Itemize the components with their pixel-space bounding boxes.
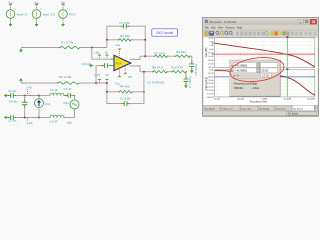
svg-text:L2 1T: L2 1T xyxy=(50,88,58,92)
capacitor C6 xyxy=(22,101,27,103)
wire R2 row right xyxy=(79,82,107,84)
close button xyxy=(310,19,317,24)
resistor R1 xyxy=(60,46,80,49)
toolbar icons xyxy=(205,32,209,35)
resistor R7 xyxy=(155,55,167,58)
toolbar xyxy=(204,30,318,38)
ground at C5 xyxy=(7,117,9,119)
ground at R2 input xyxy=(20,81,22,83)
svg-text:(-IN): (-IN) xyxy=(94,51,100,55)
tab bar xyxy=(204,105,318,111)
wire C9 to +IN pin xyxy=(109,65,114,67)
resistor R4 xyxy=(120,91,133,94)
gain plot vertical grid xyxy=(216,38,218,68)
resistor R8 xyxy=(153,70,167,73)
svg-text:-25.00: -25.00 xyxy=(208,64,215,66)
svg-text:R9 634: R9 634 xyxy=(176,50,186,54)
node (-IN) label stub xyxy=(98,54,101,56)
wire R10 to C7b xyxy=(185,72,187,77)
ground at C8 xyxy=(191,69,193,71)
wire between R8 and R10 xyxy=(167,71,173,73)
op-amp pin stubs xyxy=(111,58,115,60)
svg-text:Vpwr= 5: Vpwr= 5 xyxy=(17,12,28,16)
svg-text:Process: Process xyxy=(226,26,236,29)
cursor b blue line xyxy=(215,76,315,78)
resistor R3 xyxy=(119,39,131,42)
op-amp PD pin xyxy=(124,73,127,75)
svg-text:Edit: Edit xyxy=(211,26,216,29)
status bar xyxy=(204,111,318,116)
svg-text:10.00: 10.00 xyxy=(208,38,214,40)
phase plot horizontal grid xyxy=(215,72,315,74)
gain plot frame xyxy=(215,38,315,68)
wire R4 branch left xyxy=(107,91,120,93)
wire feedback bottom-right vertical xyxy=(129,72,144,104)
wire R9 to C8 xyxy=(190,56,192,62)
svg-text:Help: Help xyxy=(237,26,243,29)
capacitor C7 xyxy=(123,24,125,29)
node -IN label stub xyxy=(105,54,108,56)
wire output top xyxy=(130,56,156,59)
svg-text:R8 24.9: R8 24.9 xyxy=(152,66,163,70)
svg-text:C3 1T: C3 1T xyxy=(64,87,72,91)
gain curve xyxy=(215,43,315,67)
svg-text:Output nois: Output nois xyxy=(221,107,233,110)
svg-text:VG1: VG1 xyxy=(63,101,69,105)
wire Vin1 to L2 xyxy=(39,95,50,97)
svg-text:(+IN): (+IN) xyxy=(94,73,100,77)
svg-text:Frequency (Hz): Frequency (Hz) xyxy=(250,101,267,104)
svg-text:AC Bode1: AC Bode1 xyxy=(293,107,304,110)
svg-text:R3 402: R3 402 xyxy=(120,34,130,38)
svg-text:Frequency and Slope: Frequency and Slope xyxy=(234,83,258,86)
capacitor C2 xyxy=(123,101,125,106)
svg-text:C6 4p: C6 4p xyxy=(9,99,17,103)
svg-text:-75.00: -75.00 xyxy=(208,80,215,82)
svg-text:C4 4p: C4 4p xyxy=(8,89,16,93)
window icon xyxy=(205,20,208,23)
wire R4 branch right xyxy=(132,91,144,93)
ground at C4 xyxy=(7,95,9,97)
wire R1 row left xyxy=(21,47,60,49)
svg-text:Gain (dB): Gain (dB) xyxy=(206,47,208,57)
svg-text:Input nois: Input nois xyxy=(242,107,252,110)
svg-text:-1.61k: -1.61k xyxy=(252,87,260,90)
cursor a red line xyxy=(215,53,315,55)
menu bar xyxy=(204,25,318,30)
wire R1 row right xyxy=(80,47,107,49)
svg-text:Vee: Vee xyxy=(115,43,120,47)
svg-text:Phase [deg]: Phase [deg] xyxy=(206,77,208,90)
svg-text:(-IN): (-IN) xyxy=(26,85,32,89)
capacitor C9 xyxy=(104,63,106,68)
wire feedback bottom-left vertical xyxy=(107,83,122,104)
svg-text:(+IN): (+IN) xyxy=(26,121,32,125)
cursor frequency green line (gain) xyxy=(286,38,288,68)
source Vin1 xyxy=(38,96,40,99)
svg-text:PD: PD xyxy=(128,75,132,79)
wire between R7 and R9 xyxy=(167,55,176,57)
svg-text:C7 100p: C7 100p xyxy=(188,76,192,88)
svg-text:AC Amplit: AC Amplit xyxy=(260,107,270,110)
svg-text:C2 6.8n: C2 6.8n xyxy=(120,96,131,100)
red annotation ellipse xyxy=(229,55,286,85)
phase plot frame xyxy=(215,70,315,97)
node (+IN) label stub xyxy=(98,78,101,80)
svg-text:-175.00: -175.00 xyxy=(207,93,215,95)
cursor readout dialog xyxy=(230,60,281,96)
svg-text:Vcc: Vcc xyxy=(115,81,120,85)
wire jog down to -IN pin xyxy=(92,48,114,60)
analysis window frame xyxy=(203,18,319,117)
svg-text:10.00M: 10.00M xyxy=(284,99,291,101)
op-amp supply pin Vcc (bottom) xyxy=(118,76,121,78)
svg-text:Input nois: Input nois xyxy=(276,107,286,110)
wire riser to +IN pin xyxy=(95,66,97,83)
svg-text:U1 THS4131: U1 THS4131 xyxy=(147,80,165,84)
capacitor C3 xyxy=(67,93,69,98)
wire C4 to junction xyxy=(17,95,39,97)
phase curve xyxy=(215,71,315,96)
svg-text:-25.00: -25.00 xyxy=(208,73,215,75)
wire L2 to C3 xyxy=(64,95,67,97)
capacitor C7 output xyxy=(184,78,189,80)
plot client area xyxy=(204,38,318,106)
svg-text:-15.00: -15.00 xyxy=(208,56,215,58)
capacitor C5 xyxy=(10,115,12,120)
svg-text:PD 0: PD 0 xyxy=(69,12,76,16)
ground at C9 xyxy=(92,65,94,67)
tab scroll buttons xyxy=(315,105,318,111)
svg-text:View: View xyxy=(218,26,224,29)
wire R3 branch right xyxy=(131,39,145,41)
svg-text:C9 10n: C9 10n xyxy=(82,62,92,66)
svg-text:2007 model: 2007 model xyxy=(156,31,173,35)
svg-text:AC Amplit: AC Amplit xyxy=(205,107,215,110)
svg-text:L3 1T: L3 1T xyxy=(50,120,58,124)
svg-text:C7 6.8n: C7 6.8n xyxy=(119,21,130,25)
svg-text:-20.00: -20.00 xyxy=(208,60,215,62)
op-amp supply pin Vee (top) xyxy=(118,48,121,50)
svg-text:Bemutato - AC Bode1: Bemutato - AC Bode1 xyxy=(210,20,237,24)
node +IN label stub xyxy=(105,78,108,80)
ground of VS2 xyxy=(36,22,38,24)
svg-text:f 88.09k: f 88.09k xyxy=(234,87,244,90)
svg-text:+IN: +IN xyxy=(105,73,109,77)
svg-text:10.00k: 10.00k xyxy=(214,99,221,101)
svg-text:C5 4p: C5 4p xyxy=(8,119,16,123)
ground at R1 input xyxy=(20,48,22,50)
svg-text:-50.00: -50.00 xyxy=(208,77,215,79)
capacitor C4 xyxy=(10,93,12,98)
wire feedback top-right xyxy=(129,26,145,56)
svg-text:R1 2.74k: R1 2.74k xyxy=(61,41,74,45)
svg-text:FDA: FDA xyxy=(116,61,122,65)
svg-text:-5.00: -5.00 xyxy=(209,49,215,51)
svg-text:20.28: 20.28 xyxy=(261,69,268,73)
svg-text:-20.28: -20.28 xyxy=(262,75,270,78)
resistor R9 xyxy=(176,55,190,58)
junction output bottom feedback xyxy=(143,71,145,73)
phase plot vertical grid xyxy=(216,70,218,97)
svg-text:AC Bode1: AC Bode1 xyxy=(288,113,299,116)
svg-text:R7 24.9: R7 24.9 xyxy=(154,51,165,55)
inductor L3 xyxy=(50,115,64,117)
ground of VS1 xyxy=(10,22,12,24)
window title bar xyxy=(204,18,318,25)
cursor frequency green line (phase) xyxy=(286,70,288,97)
wire C5 to junction xyxy=(17,117,39,119)
resistor R2 xyxy=(58,82,79,85)
capacitor C8 xyxy=(189,63,194,65)
ground of VS3 xyxy=(62,22,64,24)
svg-text:Vin1: Vin1 xyxy=(45,102,51,106)
node junction on R1 rail xyxy=(91,47,93,49)
wire R2 row left xyxy=(21,82,58,84)
svg-text:100.00k: 100.00k xyxy=(237,99,245,101)
inductor L2 xyxy=(50,93,64,95)
wire feedback top-left vertical xyxy=(107,26,121,47)
svg-text:a - b: a - b xyxy=(234,75,240,78)
svg-text:R10 634: R10 634 xyxy=(171,66,183,70)
capacitor C6 vertical xyxy=(24,96,26,101)
svg-text:+42.08861: +42.08861 xyxy=(235,69,248,73)
svg-text:-IN: -IN xyxy=(105,51,109,55)
junction output top feedback xyxy=(144,55,146,57)
node junction on R2 rail xyxy=(95,82,97,84)
wire Vin1 to L3 xyxy=(39,117,50,119)
resistor R10 xyxy=(173,70,187,73)
op-amp U1 FDA triangle xyxy=(114,55,131,70)
svg-text:R4 402: R4 402 xyxy=(120,85,130,89)
svg-text:File: File xyxy=(205,26,210,29)
svg-text:(dc): (dc) xyxy=(67,121,72,125)
wire R3 branch left xyxy=(107,39,119,41)
svg-text:R2 2.74k: R2 2.74k xyxy=(59,75,72,79)
svg-text:100.00M: 100.00M xyxy=(307,99,315,101)
maximize button xyxy=(304,19,310,24)
source VG1 xyxy=(74,96,76,100)
svg-text:Vpwr -3.3: Vpwr -3.3 xyxy=(43,12,56,16)
wire L3 to VG1 bottom xyxy=(64,117,75,119)
wire output bottom xyxy=(130,66,154,72)
gain plot horizontal grid xyxy=(215,41,315,43)
svg-text:C8 100p: C8 100p xyxy=(194,64,198,76)
annotation 2007 model box xyxy=(152,29,178,36)
wire C3 to VG1 xyxy=(72,95,75,97)
ground at output C7 xyxy=(185,84,187,86)
minimize button xyxy=(298,19,304,24)
